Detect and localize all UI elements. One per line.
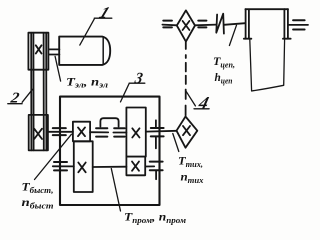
underline label 4: [194, 108, 209, 110]
bearing right of drum: [293, 20, 305, 29]
bearing left of sprocket S2: [163, 21, 172, 28]
sprocket S1 (lower, on output shaft): [177, 117, 198, 148]
middle bearing left caps: [96, 128, 107, 136]
gear Z1 (pinion, fast shaft): [73, 122, 90, 142]
sprocket S2 (upper, driven shaft): [177, 10, 195, 41]
pulley P2 (gearbox pulley): [29, 115, 48, 150]
underline label 3: [129, 82, 145, 84]
leader Тбыст: [35, 134, 72, 179]
bearing right wall intermediate shaft: [150, 162, 163, 180]
gear Z2 (wheel, intermediate shaft): [74, 141, 93, 192]
bearing right of sprocket S2: [198, 21, 206, 28]
leader for label 1: [80, 19, 95, 45]
input shaft (fast): [48, 131, 73, 133]
intermediate shaft middle: [93, 166, 127, 168]
coupling (zigzag): [216, 14, 224, 34]
intermediate shaft right: [145, 165, 154, 167]
drive shaft to drum: [224, 23, 245, 25]
leader Ттих: [173, 134, 179, 152]
motor end-cap line: [102, 37, 104, 65]
bearing left wall input shaft: [53, 128, 66, 135]
drum right flange: [283, 9, 291, 39]
label 2: [8, 91, 20, 107]
pulley P1 (motor pulley): [28, 33, 48, 70]
gearbox housing: [60, 97, 160, 205]
bearing right wall output shaft: [151, 120, 164, 148]
drum hanging body: [250, 39, 285, 91]
label 4: [196, 93, 211, 113]
intermediate shaft left: [53, 165, 74, 167]
underline label 1: [94, 17, 112, 19]
chain (dashed): [185, 42, 187, 115]
gear Z3 (pinion, intermediate shaft): [126, 157, 145, 176]
drum top edge: [245, 8, 288, 10]
output shaft (to sprocket): [146, 130, 177, 133]
input shaft inner stub: [90, 131, 108, 133]
motor shaft: [48, 49, 59, 54]
upper shaft right segment: [195, 24, 216, 27]
motor M1 body: [59, 37, 110, 65]
leader for label 4: [186, 91, 196, 106]
output shaft inner stub: [113, 132, 126, 134]
leader for label 2: [22, 89, 32, 102]
upper shaft left stub: [162, 24, 176, 27]
bearing left wall intermediate shaft: [54, 162, 67, 170]
gear Z4 (wheel, output shaft): [126, 108, 145, 157]
drum right shaft stub: [288, 24, 308, 26]
underline label 2: [8, 103, 22, 105]
label 3: [133, 70, 145, 87]
leader Тэл: [55, 56, 61, 81]
middle coaxial support bracket: [100, 118, 118, 126]
belt run left: [31, 33, 33, 151]
leader Тцеп: [229, 25, 236, 45]
middle bearing right caps: [114, 128, 124, 136]
label 1: [97, 5, 112, 21]
drum left flange: [244, 9, 251, 39]
leader Тпром: [111, 169, 120, 212]
belt run right: [44, 33, 47, 151]
leader for label 3: [121, 83, 130, 102]
